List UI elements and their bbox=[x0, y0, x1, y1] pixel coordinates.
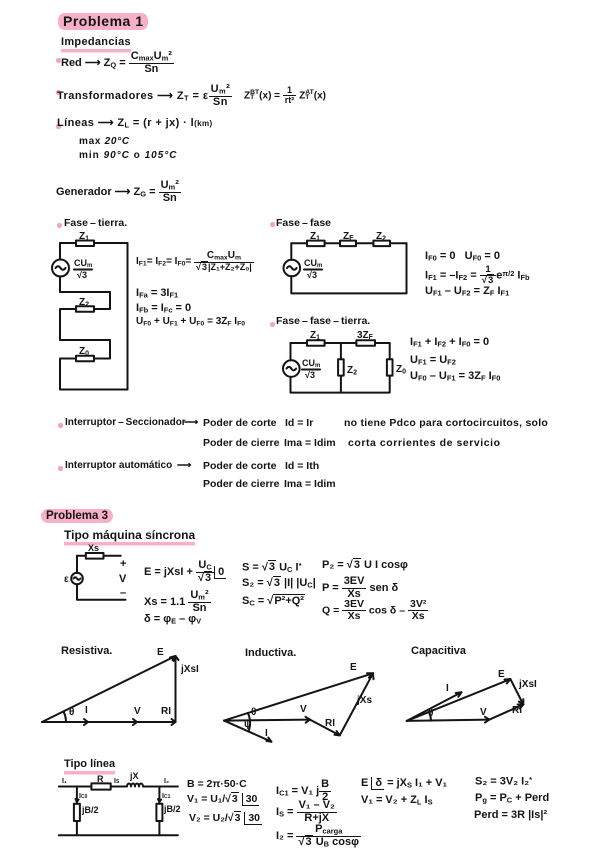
label jB/2 left bbox=[81, 805, 99, 815]
phasor V axis resistiva bbox=[42, 719, 176, 725]
label current Ic0 bbox=[79, 793, 88, 800]
label R bbox=[97, 774, 104, 784]
wire bottom bbox=[77, 584, 126, 600]
label V bbox=[119, 573, 127, 585]
wire right rail bbox=[127, 243, 129, 390]
svg-text:jB/2: jB/2 bbox=[81, 805, 99, 815]
source G bbox=[284, 260, 301, 277]
wire top bbox=[59, 786, 178, 788]
wire top bbox=[291, 242, 406, 244]
svg-text:I₂: I₂ bbox=[164, 778, 169, 785]
wire shunt right bbox=[158, 787, 160, 804]
wire top bbox=[77, 555, 121, 557]
svg-text:I₁: I₁ bbox=[62, 778, 67, 785]
angle theta bbox=[64, 712, 67, 723]
label Z0 bbox=[396, 364, 406, 376]
wire shunt left bbox=[76, 787, 78, 804]
phasor E inductiva bbox=[224, 673, 373, 720]
wire top bbox=[291, 342, 390, 344]
impedance Z1 box bbox=[307, 340, 325, 346]
capacitor jB/2 left box bbox=[74, 804, 80, 821]
impedance ZF box bbox=[340, 241, 356, 247]
label Z2 bbox=[376, 231, 386, 243]
svg-text:jB/2: jB/2 bbox=[163, 804, 181, 814]
label Xs bbox=[88, 543, 99, 553]
wire left bbox=[76, 556, 78, 573]
inductor jX coil bbox=[127, 784, 143, 787]
source G bbox=[283, 360, 300, 377]
label source value CUm/sqrt3 bbox=[74, 258, 92, 280]
phasor jXsI resistiva bbox=[173, 656, 179, 722]
phasor RI inductiva bbox=[310, 720, 340, 736]
phasor E resistiva bbox=[42, 656, 176, 722]
reactance Xs box bbox=[86, 553, 104, 559]
label 3ZF bbox=[357, 330, 374, 341]
label current I1 bbox=[62, 778, 67, 785]
phasor E capacitiva bbox=[407, 679, 511, 721]
resistor R box bbox=[91, 783, 110, 789]
label plus bbox=[120, 558, 126, 570]
wire right rail top bbox=[389, 343, 391, 359]
phasor jXsI capacitiva bbox=[510, 679, 523, 704]
impedance Z0 vertical box bbox=[387, 359, 393, 375]
phasor I capacitiva bbox=[407, 692, 462, 721]
impedance Z1 box bbox=[307, 241, 325, 247]
source E bbox=[71, 573, 83, 585]
impedance Z1 box bbox=[76, 241, 94, 247]
svg-text:IC1: IC1 bbox=[162, 793, 171, 800]
wire bottom-left bbox=[60, 359, 128, 390]
label Z1 bbox=[310, 330, 320, 342]
wire bottom bbox=[291, 376, 390, 393]
source G bbox=[52, 260, 69, 277]
label Z0 bbox=[79, 346, 89, 358]
label ZF bbox=[343, 231, 354, 242]
tick pink right shunt bbox=[158, 799, 161, 802]
capacitor jB/2 right box bbox=[156, 804, 162, 821]
phasor RI capacitiva bbox=[489, 705, 523, 720]
wire middle rail bottom bbox=[340, 376, 342, 393]
wire top bbox=[60, 242, 128, 244]
label minus bbox=[120, 587, 126, 599]
phasor I inductiva bbox=[224, 721, 271, 742]
label current Ic1 bbox=[162, 793, 171, 800]
label Z1 bbox=[79, 231, 89, 243]
impedance Z2 box bbox=[76, 306, 94, 312]
wire left-mid1 bbox=[60, 277, 110, 310]
wire middle rail top bbox=[340, 343, 342, 359]
svg-text:R: R bbox=[97, 774, 104, 784]
wire bottom bbox=[59, 834, 178, 836]
label Z2 bbox=[79, 297, 89, 309]
wire left-top bbox=[59, 243, 61, 260]
impedance Z0 box bbox=[76, 356, 94, 362]
label Z2 bbox=[347, 365, 357, 377]
label epsilon bbox=[64, 574, 69, 585]
tick pink left shunt bbox=[76, 799, 79, 802]
impedance Z2 vertical box bbox=[338, 359, 344, 375]
label current Is bbox=[114, 778, 120, 785]
label source value bbox=[304, 258, 322, 280]
impedance 3ZF box bbox=[356, 340, 375, 346]
label jB/2 right bbox=[163, 804, 181, 814]
phasor V capacitiva bbox=[407, 717, 490, 723]
angle psi inductiva bbox=[249, 721, 251, 732]
svg-text:IS: IS bbox=[114, 778, 120, 785]
impedance Z2 box bbox=[373, 241, 390, 247]
label jX bbox=[129, 771, 139, 781]
wire left bbox=[290, 343, 292, 360]
phasor jXs inductiva bbox=[340, 673, 374, 735]
angle theta inductiva bbox=[248, 713, 250, 721]
angle theta capacitiva bbox=[429, 712, 431, 721]
wire shunt right bottom bbox=[158, 821, 160, 835]
label source value bbox=[302, 358, 320, 380]
label current I2 bbox=[164, 778, 169, 785]
wire shunt left bottom bbox=[76, 821, 78, 835]
label Z1 bbox=[310, 231, 320, 243]
wire bottom loop bbox=[291, 243, 406, 293]
wire left-mid2 bbox=[60, 309, 110, 359]
phasor V inductiva bbox=[224, 717, 310, 723]
wire left bbox=[290, 243, 292, 259]
svg-text:IC0: IC0 bbox=[79, 793, 88, 800]
svg-text:jX: jX bbox=[129, 771, 139, 781]
